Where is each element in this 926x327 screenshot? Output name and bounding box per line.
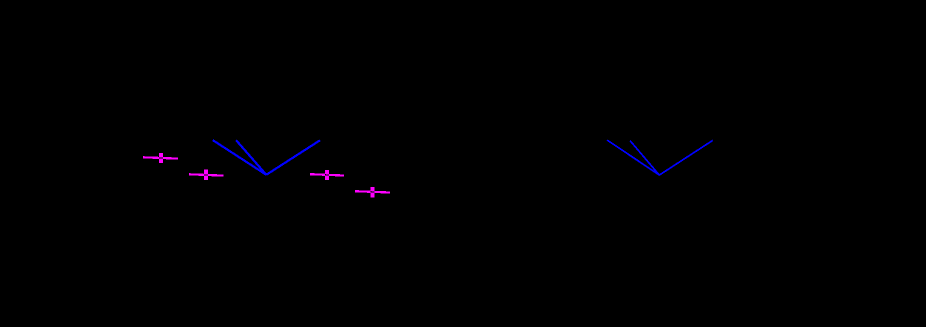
left panel: magenta data point 3 error bar (horizontal): [310, 174, 344, 175]
left panel: magenta data point 4 marker tick: [370, 187, 374, 197]
left panel: magenta data point 2 error bar (horizontal): [189, 174, 224, 175]
left panel: magenta data point 1 marker tick: [159, 153, 163, 163]
left panel: magenta data point 3 notch: [325, 174, 329, 176]
left panel: magenta data point 1 error bar (horizontal): [143, 157, 178, 158]
right panel: blue model curve B (steeper inner left branch): [630, 141, 660, 176]
left panel: blue model curve B (steeper inner left branch): [236, 140, 266, 175]
right panel: blue model curve C (right branch of V): [659, 140, 712, 175]
left panel: magenta data point 2 marker tick: [204, 170, 208, 180]
left panel: blue model curve A (left branch of V): [213, 140, 267, 175]
left panel: blue model curve C (right branch of V): [266, 140, 320, 175]
left panel: magenta data point 4 error bar (horizontal): [355, 191, 390, 192]
left panel: magenta data point 4 notch: [370, 191, 374, 193]
left panel: magenta data point 2 notch: [204, 174, 208, 176]
left panel: magenta data point 3 marker tick: [325, 170, 329, 180]
left panel: magenta data point 1 notch: [159, 157, 163, 159]
right panel: blue model curve A (left branch of V): [607, 140, 659, 175]
